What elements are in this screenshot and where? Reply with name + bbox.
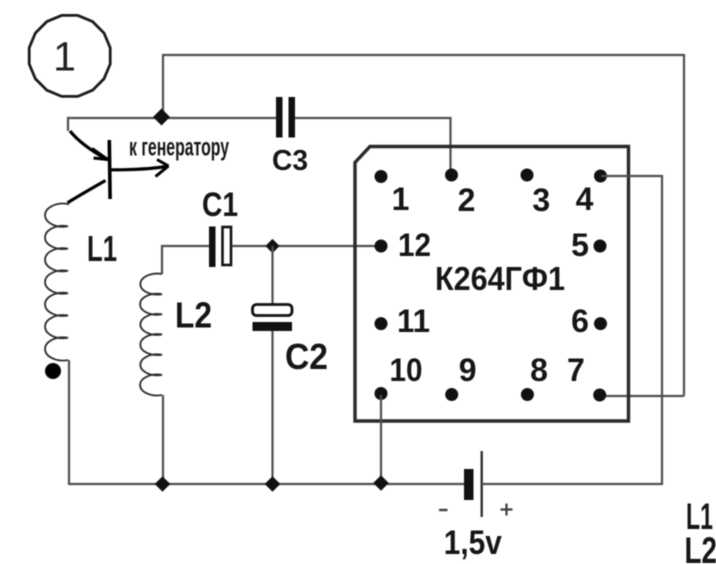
pin 10 dot (375, 387, 388, 400)
svg-text:7: 7 (567, 352, 585, 388)
wire: L2 down to rail (162, 395, 164, 485)
svg-text:К264ГФ1: К264ГФ1 (435, 260, 565, 297)
svg-text:5: 5 (571, 227, 589, 263)
svg-text:9: 9 (459, 352, 477, 388)
pin 4 dot (594, 170, 607, 183)
svg-text:L2: L2 (685, 530, 716, 564)
junction dot C1/C2 (265, 239, 279, 253)
pin 1 dot (375, 170, 388, 183)
junction dot node A (153, 109, 170, 126)
svg-text:1: 1 (392, 181, 410, 217)
capacitor C2 plates (253, 305, 293, 316)
pin 12 dot (375, 240, 388, 253)
wire: pin4 right, down, to battery plus (483, 176, 662, 484)
node 1 marker circle (29, 15, 110, 96)
wire: ground rail (69, 483, 464, 485)
wire: left stub below sketch to L1 (67, 201, 69, 205)
svg-text:1,5v: 1,5v (444, 524, 502, 562)
svg-text:8: 8 (530, 352, 548, 388)
capacitor C1 plates (209, 227, 216, 268)
junction dot rail C2 (265, 476, 281, 492)
pin 11 dot (375, 317, 388, 330)
wire: C2 down to rail (271, 331, 273, 485)
battery plus sign (501, 504, 513, 516)
svg-text:С3: С3 (272, 145, 308, 177)
svg-text:3: 3 (532, 182, 550, 218)
wire: L2 top to C1 (162, 246, 209, 274)
wire: junction down to C2 (271, 246, 273, 304)
svg-text:к генератору: к генератору (129, 134, 229, 162)
sketch arrow out right (111, 167, 166, 170)
svg-text:C1: C1 (202, 186, 238, 224)
battery minus sign (439, 509, 448, 511)
pin 5 dot (594, 240, 607, 253)
inductor L1 (45, 204, 68, 361)
battery BT1 negative plate (464, 469, 474, 500)
svg-text:C2: C2 (285, 336, 328, 377)
svg-text:6: 6 (571, 303, 589, 339)
wire: antenna node horizontal (67, 117, 278, 119)
pin 8 dot (521, 388, 534, 401)
sketch arrow into bar (70, 131, 107, 160)
wire: pin10 down to rail (380, 395, 382, 484)
junction dot rail L2 (155, 476, 171, 492)
wire: top rail (163, 55, 684, 396)
transistor sketch (hand-drawn) bar (108, 140, 112, 199)
battery BT1 positive plate (481, 451, 483, 517)
capacitor C3 plates (276, 97, 283, 138)
wire: C1 to pin12 (232, 245, 380, 247)
svg-text:12: 12 (398, 227, 431, 263)
svg-text:L2: L2 (175, 295, 212, 336)
svg-text:4: 4 (576, 181, 594, 217)
junction dot rail pin10 (373, 475, 389, 491)
svg-text:10: 10 (390, 352, 423, 388)
IC U1 box (355, 147, 629, 422)
svg-text:11: 11 (397, 303, 430, 339)
wire: pin7 to right vertical (601, 395, 684, 397)
inductor L2 (140, 274, 162, 396)
pin 7 dot (593, 389, 606, 402)
L1 tap dot (45, 363, 61, 379)
pin 3 dot (521, 169, 534, 182)
svg-text:2: 2 (458, 182, 476, 218)
pin 6 dot (594, 317, 607, 330)
svg-text:L1: L1 (87, 228, 117, 269)
sketch lower diagonal (68, 181, 106, 203)
wire: C3 to pin2 (295, 118, 451, 172)
pin 9 dot (445, 388, 458, 401)
wire: left stub above transistor sketch (67, 117, 69, 131)
svg-text:1: 1 (53, 34, 76, 80)
pin 2 dot (445, 169, 458, 182)
wire: L1 down to rail (68, 360, 70, 485)
